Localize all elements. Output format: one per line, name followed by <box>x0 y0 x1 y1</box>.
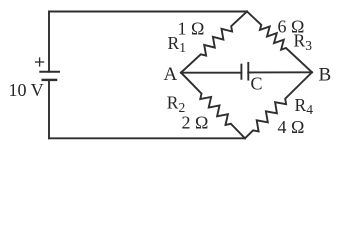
wire: top horizontal segment (top-left corner to top node) <box>49 11 247 13</box>
svg-text:4 Ω: 4 Ω <box>278 117 305 137</box>
wire: node A to capacitor left plate <box>181 72 241 74</box>
resistor R1 (1 ohm, node A to top node) <box>181 12 247 73</box>
wire: left vertical lower segment (battery - terminal to bottom-left corner) <box>48 80 50 138</box>
battery polarity plus sign <box>36 58 44 66</box>
svg-text:R3: R3 <box>294 31 313 53</box>
svg-text:2 Ω: 2 Ω <box>182 113 209 133</box>
battery 10 V long (positive) plate <box>40 71 59 73</box>
svg-text:1 Ω: 1 Ω <box>178 18 205 38</box>
capacitor C right plate <box>247 63 249 80</box>
svg-text:R2: R2 <box>167 93 185 115</box>
resistor R2 (2 ohm, node A to bottom node) <box>181 73 245 139</box>
resistor R3 (6 ohm, top node to node B) <box>247 12 312 73</box>
svg-text:C: C <box>251 74 263 94</box>
svg-text:A: A <box>164 64 178 85</box>
capacitor C left plate <box>240 65 242 79</box>
svg-text:R4: R4 <box>295 95 314 117</box>
wire: capacitor right plate to node B <box>248 71 312 73</box>
wire: bottom horizontal segment (bottom-left corner to bottom node) <box>49 137 245 139</box>
svg-text:10 V: 10 V <box>9 80 44 100</box>
wire: left vertical upper segment (battery + terminal to top-left corner) <box>48 12 50 72</box>
svg-text:B: B <box>319 65 332 86</box>
resistor R4 (4 ohm, bottom node to node B) <box>245 72 312 138</box>
battery 10 V short (negative) plate <box>43 79 56 81</box>
